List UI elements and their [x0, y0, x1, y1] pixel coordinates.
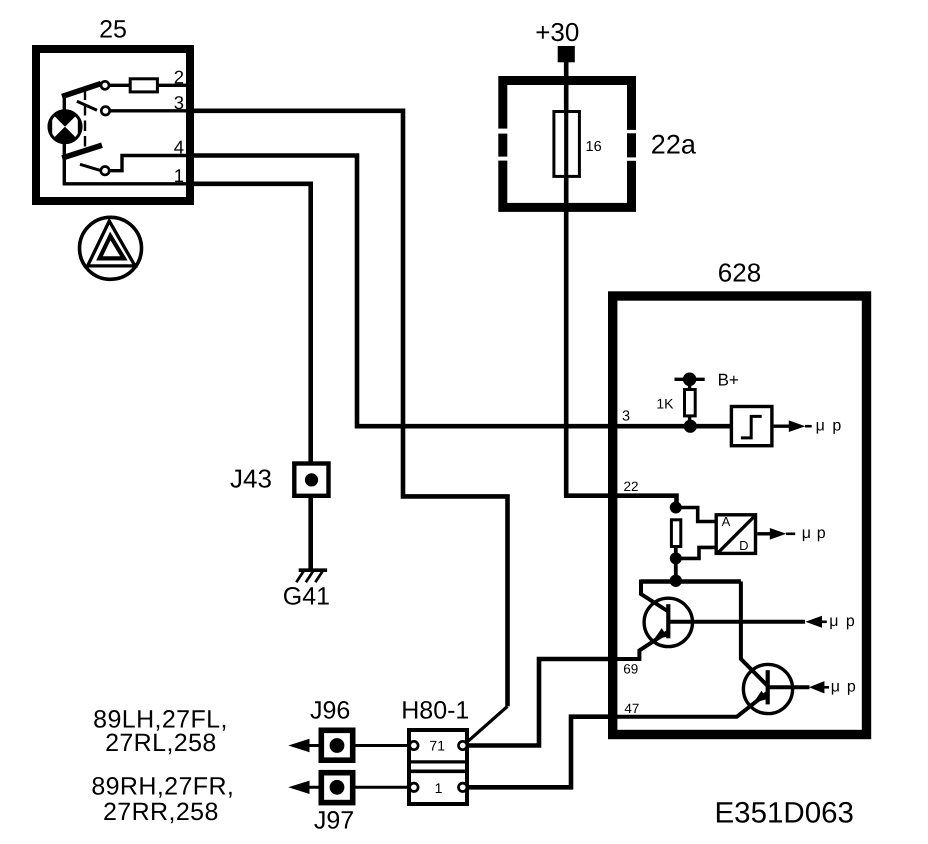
svg-text:27RL,258: 27RL,258	[105, 729, 217, 757]
svg-text:89RH,27FR,: 89RH,27FR,	[91, 773, 234, 801]
svg-text:1K: 1K	[656, 396, 674, 412]
svg-text:47: 47	[624, 701, 639, 716]
svg-text:G41: G41	[283, 583, 330, 611]
svg-text:μ: μ	[831, 679, 840, 696]
svg-text:3: 3	[174, 92, 184, 113]
svg-text:71: 71	[429, 737, 445, 753]
svg-text:p: p	[817, 525, 826, 542]
svg-text:μ: μ	[829, 613, 838, 630]
svg-text:628: 628	[718, 257, 761, 287]
svg-text:69: 69	[623, 661, 638, 676]
svg-text:p: p	[847, 679, 856, 696]
svg-text:3: 3	[622, 409, 630, 425]
svg-text:2: 2	[174, 66, 184, 87]
svg-text:p: p	[832, 417, 841, 434]
svg-text:J96: J96	[310, 697, 350, 725]
svg-text:p: p	[846, 613, 855, 630]
svg-text:H80-1: H80-1	[401, 696, 469, 724]
svg-text:22: 22	[624, 479, 639, 494]
svg-text:22a: 22a	[651, 130, 697, 160]
svg-text:μ: μ	[816, 417, 825, 434]
svg-text:E351D063: E351D063	[715, 796, 854, 829]
svg-text:B+: B+	[718, 370, 739, 389]
svg-text:D: D	[739, 538, 748, 553]
svg-text:16: 16	[586, 139, 602, 155]
svg-text:27RR,258: 27RR,258	[103, 798, 219, 826]
svg-text:μ: μ	[802, 525, 811, 542]
svg-text:+30: +30	[535, 17, 579, 47]
svg-text:A: A	[722, 514, 731, 529]
svg-text:1: 1	[174, 165, 184, 186]
svg-text:25: 25	[99, 15, 127, 43]
svg-text:J97: J97	[314, 806, 354, 834]
svg-text:1: 1	[435, 780, 443, 796]
svg-text:J43: J43	[230, 463, 272, 493]
svg-text:4: 4	[174, 137, 184, 158]
